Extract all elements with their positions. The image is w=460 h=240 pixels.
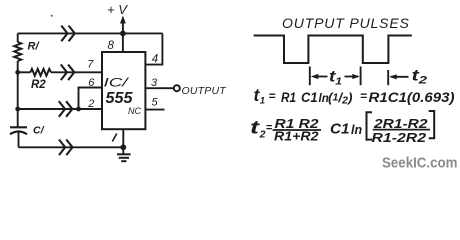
svg-text:SeekIC.com: SeekIC.com (382, 155, 458, 172)
svg-text:C1: C1 (330, 121, 350, 138)
equation t1 (254, 85, 456, 107)
wire: pin6 riser (79, 88, 103, 110)
wire: pin 1 to ground (122, 129, 124, 147)
svg-text:8: 8 (108, 40, 115, 52)
dimension t1 left arrow (311, 74, 328, 79)
wire: bottom rail (C1 to pin 1 / ground) (19, 146, 124, 148)
svg-text:2: 2 (87, 98, 94, 110)
node: pin2/pin6 junction (76, 107, 81, 112)
svg-text:5: 5 (152, 97, 159, 109)
wire: pin 8 (122, 33, 124, 52)
svg-text:R1: R1 (281, 90, 296, 105)
svg-text:R2: R2 (31, 79, 46, 91)
svg-text:NC: NC (128, 106, 141, 116)
svg-text:=: = (266, 122, 273, 134)
ground (117, 147, 131, 161)
wire: R2 to pin 7 (51, 71, 102, 73)
svg-text:1: 1 (260, 96, 265, 107)
wire: left vertical (R1 to C1) (17, 61, 19, 127)
wire: pin 5 stub (NC) (145, 109, 164, 111)
dimension t2 arrow (389, 74, 408, 79)
wire: pin 3 output (145, 87, 173, 89)
resistor R2 (18, 69, 51, 76)
wire: +V top rail (18, 32, 163, 34)
resistor R1 (14, 42, 21, 61)
wire: pin 4 to +V rail (145, 33, 162, 64)
stray ink dot (51, 15, 53, 17)
svg-text:2: 2 (259, 129, 266, 141)
pin label 1 (112, 134, 117, 142)
svg-text:IC/: IC/ (104, 76, 131, 90)
node: ground junction (120, 144, 126, 150)
dimension t2 tick (387, 70, 389, 85)
svg-text:+V: +V (107, 2, 128, 17)
node: C1 / pin2 junction (15, 107, 20, 112)
svg-text:R1+R2: R1+R2 (274, 130, 319, 144)
wire crossover chevron on bottom rail (59, 140, 73, 156)
svg-text:R1C1(0.693): R1C1(0.693) (369, 90, 456, 105)
op-amp / timer IC1 555 body (102, 52, 145, 129)
node: R1/R2 junction (15, 70, 20, 75)
equation t2 (250, 111, 434, 145)
svg-text:ln: ln (351, 123, 362, 137)
capacitor C1 (10, 127, 27, 147)
svg-text:=: = (360, 89, 367, 103)
svg-text:555: 555 (106, 90, 134, 107)
svg-text:=: = (269, 89, 276, 103)
waveform: output pulses trace (254, 36, 412, 64)
power +V symbol (107, 2, 128, 34)
svg-text:(1/2): (1/2) (328, 90, 353, 107)
svg-text:C/: C/ (33, 125, 45, 137)
wire: pin 2 horizontal (18, 108, 102, 110)
dimension t1 ticks (310, 67, 361, 86)
svg-text:R1-2R2: R1-2R2 (372, 131, 427, 145)
svg-text:4: 4 (152, 53, 158, 65)
svg-text:7: 7 (87, 59, 94, 71)
wire crossover chevron on pin2 wire (59, 101, 73, 117)
svg-text:3: 3 (151, 77, 158, 89)
svg-text:6: 6 (88, 77, 95, 89)
wire crossover chevron on pin7 wire (61, 65, 75, 81)
svg-text:OUTPUT PULSES: OUTPUT PULSES (282, 15, 410, 31)
svg-text:OUTPUT: OUTPUT (182, 85, 228, 97)
node: pin8 / +V junction (120, 31, 126, 37)
wire: left vertical (top rail to R1) (17, 33, 19, 42)
dimension t1 right arrow (345, 74, 360, 79)
wire crossover chevron on top rail (61, 26, 75, 42)
svg-text:C1: C1 (301, 90, 318, 105)
output terminal circle (174, 85, 180, 91)
